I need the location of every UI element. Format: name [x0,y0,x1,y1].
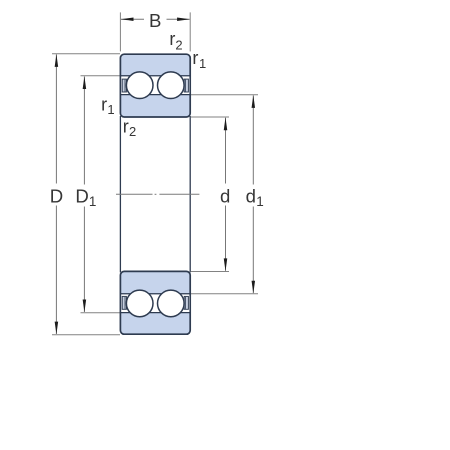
cage left bottom section [122,296,126,309]
d1 arrow down [252,281,256,294]
D1 dimension line [83,77,85,185]
svg-text:D: D [75,185,88,206]
d1 extension line bottom [191,293,258,295]
B extension line left [119,12,121,51]
ball top right [158,72,185,99]
D dimension line [55,54,57,183]
d arrow down [224,258,228,271]
d extension line top [191,116,229,118]
svg-text:2: 2 [175,38,182,53]
svg-text:1: 1 [199,56,206,71]
svg-text:r: r [192,48,198,68]
ball bottom left [126,290,153,317]
d1 arrow up [252,95,256,108]
raceway band top section [121,76,189,94]
D arrow down [55,322,59,335]
d dimension line [225,118,227,184]
svg-text:1: 1 [256,194,264,209]
bore line left [119,116,121,272]
outer ring top section [120,54,190,117]
svg-text:r: r [123,117,129,137]
D1 arrow up [83,76,87,89]
svg-text:D: D [50,185,63,206]
D1 arrow down [83,300,87,313]
B arrow left [121,17,134,21]
svg-text:1: 1 [89,194,97,209]
d extension line bottom [191,271,229,273]
cage right bottom section [184,296,188,309]
svg-text:r: r [101,95,107,115]
raceway band bottom section [121,294,189,312]
B extension line right [189,12,191,51]
centerline (dash-dot) [116,193,153,195]
inner race line bottom section [121,312,190,314]
cage right top section [184,79,188,92]
outer ring bottom section [120,271,190,334]
D extension line bottom [52,334,120,336]
B dimension line [121,18,144,20]
outer race line top section [121,75,190,77]
ball bottom right [158,290,185,317]
d1 extension line top [191,94,258,96]
svg-text:d: d [220,185,230,206]
svg-text:1: 1 [107,102,114,117]
D1 extension line top [81,75,121,77]
inner race line top section [121,94,190,96]
outer race line bottom section [121,293,190,295]
D1 extension line bottom [81,312,121,314]
B arrow right [177,17,190,21]
svg-text:2: 2 [129,124,136,139]
D extension line top [52,53,120,55]
cage left top section [122,79,126,92]
D arrow up [55,54,59,67]
svg-text:d: d [246,185,256,206]
ball top left [126,72,153,99]
bore line right [189,116,191,272]
svg-text:B: B [149,10,161,31]
d arrow up [224,117,228,130]
d1 dimension line [252,95,254,184]
